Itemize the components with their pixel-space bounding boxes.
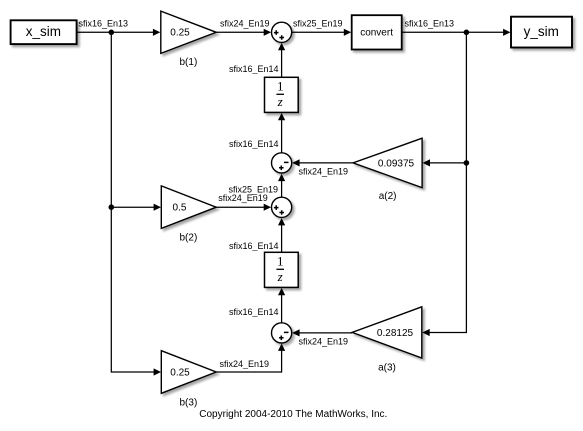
gain a(2) bbox=[353, 138, 422, 187]
sum S1 bbox=[272, 22, 292, 42]
svg-text:0.25: 0.25 bbox=[170, 367, 190, 378]
wire right column to a(2) bbox=[423, 159, 467, 166]
wire left column vertical to b(3) bbox=[111, 32, 161, 375]
svg-text:0.09375: 0.09375 bbox=[378, 158, 415, 169]
wire a(2) to S2 bbox=[292, 159, 353, 166]
wire S4 to delay lower bbox=[278, 288, 285, 323]
svg-text:x_sim: x_sim bbox=[26, 24, 61, 39]
unit delay 1/z (upper) bbox=[265, 77, 299, 112]
svg-text:sfix24_En19: sfix24_En19 bbox=[299, 337, 349, 347]
svg-text:0.25: 0.25 bbox=[170, 28, 190, 39]
unit delay 1/z (lower) bbox=[265, 252, 299, 287]
svg-text:sfix16_En13: sfix16_En13 bbox=[79, 18, 129, 28]
sum S4 (minus) bbox=[272, 323, 292, 343]
junction node on convert output bbox=[464, 30, 470, 36]
svg-text:sfix16_En14: sfix16_En14 bbox=[229, 241, 279, 251]
sum S2 (minus) bbox=[272, 153, 292, 173]
wire left column to b(2) bbox=[111, 204, 161, 211]
svg-text:z: z bbox=[277, 94, 283, 109]
svg-text:1: 1 bbox=[277, 253, 284, 268]
wire S2 to delay upper bbox=[278, 113, 285, 153]
wire x_sim to b(1) bbox=[77, 29, 161, 36]
svg-text:0.28125: 0.28125 bbox=[377, 328, 414, 339]
svg-text:sfix16_En13: sfix16_En13 bbox=[405, 18, 455, 28]
convert block bbox=[352, 15, 402, 49]
svg-text:sfix24_En19: sfix24_En19 bbox=[220, 18, 270, 28]
svg-text:sfix24_En19: sfix24_En19 bbox=[219, 359, 269, 369]
gain b(1) bbox=[161, 11, 216, 53]
svg-text:sfix24_En19: sfix24_En19 bbox=[218, 193, 268, 203]
wire convert to y_sim bbox=[402, 29, 511, 36]
sum S3 bbox=[272, 197, 292, 217]
svg-text:0.5: 0.5 bbox=[173, 203, 187, 214]
junction node on x_sim wire bbox=[109, 30, 115, 36]
svg-text:z: z bbox=[277, 269, 283, 284]
svg-text:a(3): a(3) bbox=[378, 363, 396, 374]
wire b(2) to S3 bbox=[216, 204, 271, 211]
svg-text:sfix25_En19: sfix25_En19 bbox=[293, 18, 343, 28]
svg-text:convert: convert bbox=[360, 27, 393, 38]
svg-text:b(3): b(3) bbox=[180, 397, 198, 408]
wire a(3) to S4 bbox=[292, 329, 352, 336]
svg-text:a(2): a(2) bbox=[379, 191, 397, 202]
svg-text:b(1): b(1) bbox=[180, 57, 198, 68]
wire b(1) to sum S1 bbox=[216, 29, 271, 36]
wire delay lower to S3 bbox=[278, 218, 285, 252]
svg-text:sfix24_En19: sfix24_En19 bbox=[299, 167, 349, 177]
gain a(3) bbox=[352, 307, 422, 358]
junction node left column bbox=[109, 204, 115, 210]
wire right column vertical bbox=[422, 32, 466, 336]
wire delay upper to S1 bbox=[278, 43, 285, 77]
svg-text:y_sim: y_sim bbox=[524, 24, 559, 39]
wire b(3) to S4 bbox=[216, 344, 285, 373]
svg-text:sfix16_En14: sfix16_En14 bbox=[229, 307, 279, 317]
svg-text:sfix16_En14: sfix16_En14 bbox=[229, 64, 279, 74]
svg-text:1: 1 bbox=[277, 78, 284, 93]
inport x_sim bbox=[11, 20, 77, 44]
svg-text:b(2): b(2) bbox=[180, 233, 198, 244]
wire S3 to S2 bbox=[278, 174, 285, 198]
junction node right column bbox=[464, 160, 470, 166]
svg-text:Copyright 2004-2010 The MathWo: Copyright 2004-2010 The MathWorks, Inc. bbox=[199, 409, 387, 420]
outport y_sim bbox=[511, 17, 572, 48]
gain b(2) bbox=[161, 186, 216, 229]
wire S1 to convert bbox=[292, 29, 352, 36]
svg-text:sfix16_En14: sfix16_En14 bbox=[229, 139, 279, 149]
gain b(3) bbox=[161, 351, 216, 394]
